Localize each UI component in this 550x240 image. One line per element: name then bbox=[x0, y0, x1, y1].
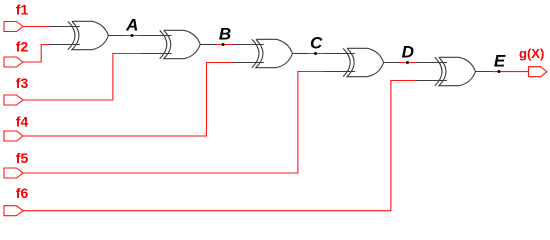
wire U3 output stub bbox=[292, 53, 308, 55]
wire f6 to XOR5 bottom input bbox=[23, 81, 416, 211]
xor gate U3 bbox=[233, 39, 292, 67]
xor gate U2 bbox=[141, 30, 200, 58]
wire U5 output stub bbox=[475, 71, 492, 73]
net A wire bbox=[125, 35, 143, 37]
svg-text:f5: f5 bbox=[16, 150, 29, 166]
input pin f3 bbox=[4, 95, 23, 105]
net E wire to output pin bbox=[492, 71, 529, 73]
svg-text:f3: f3 bbox=[16, 75, 29, 91]
net D wire bbox=[400, 62, 416, 64]
node E junction bbox=[498, 70, 501, 73]
xor gate U4 bbox=[325, 48, 384, 76]
node B junction bbox=[222, 43, 225, 46]
svg-text:E: E bbox=[494, 52, 506, 71]
wire f3 to XOR2 bottom input bbox=[23, 54, 141, 101]
input pin f2 bbox=[4, 57, 23, 67]
svg-text:f4: f4 bbox=[16, 113, 29, 129]
wire U4 output stub bbox=[384, 62, 400, 64]
svg-text:f1: f1 bbox=[16, 2, 29, 18]
xor gate U1 bbox=[49, 21, 108, 49]
input pin f6 bbox=[4, 206, 23, 216]
node C junction bbox=[314, 52, 317, 55]
net B wire bbox=[216, 44, 234, 46]
svg-text:g(X): g(X) bbox=[519, 46, 544, 61]
svg-text:D: D bbox=[402, 43, 414, 62]
svg-text:f2: f2 bbox=[16, 38, 29, 54]
wire f4 to XOR3 bottom input bbox=[23, 63, 233, 137]
wire U2 output stub bbox=[200, 44, 215, 46]
wire U1 output stub bbox=[108, 35, 124, 37]
svg-text:B: B bbox=[219, 25, 231, 44]
input pin f5 bbox=[4, 168, 23, 178]
node A junction bbox=[131, 34, 134, 37]
wire f1 to XOR1 top input bbox=[23, 26, 49, 28]
svg-text:C: C bbox=[310, 34, 323, 53]
wire f2 to XOR1 bottom input bbox=[23, 45, 49, 63]
input pin f1 bbox=[4, 22, 23, 32]
net C wire bbox=[308, 53, 325, 55]
input pin f4 bbox=[4, 131, 23, 141]
xor gate U5 bbox=[416, 57, 475, 85]
node D junction bbox=[406, 61, 409, 64]
svg-text:f6: f6 bbox=[16, 185, 29, 201]
svg-text:A: A bbox=[125, 16, 138, 35]
wire f5 to XOR4 bottom input bbox=[23, 72, 325, 174]
output pin g(X) bbox=[529, 67, 548, 77]
